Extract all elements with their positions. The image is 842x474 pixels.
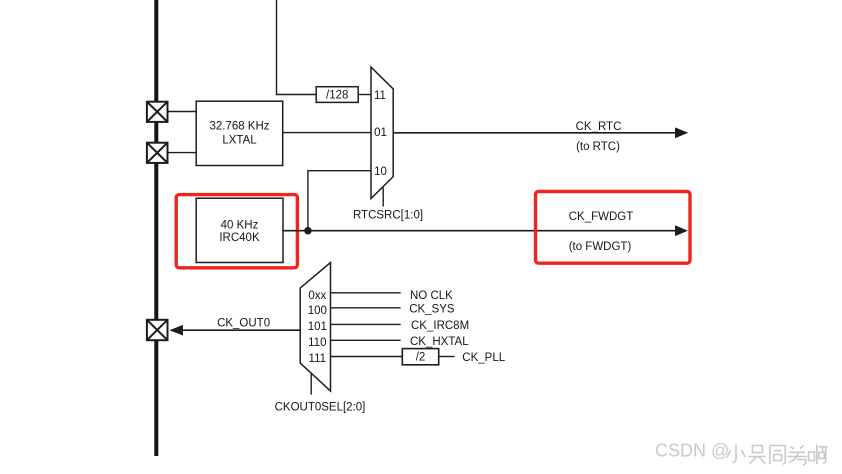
svg-text:32.768 KHz: 32.768 KHz <box>209 121 269 133</box>
wire: CK_PLL input line to /2 <box>331 356 403 358</box>
wire: OSC32OUT pad to LXTAL <box>168 152 196 154</box>
svg-text:(to RTC): (to RTC) <box>576 141 620 153</box>
wire: RTCSRC select stub <box>382 188 384 207</box>
node: IRC40K output junction dot <box>304 227 312 235</box>
svg-text:IRC40K: IRC40K <box>219 232 260 244</box>
svg-text:RTCSRC[1:0]: RTCSRC[1:0] <box>353 209 423 221</box>
divider /2 box <box>402 349 438 365</box>
svg-text:110: 110 <box>308 337 326 349</box>
pad OSC32OUT (crossed box) <box>147 143 168 163</box>
svg-text:100: 100 <box>308 305 327 317</box>
svg-text:CK_HXTAL: CK_HXTAL <box>410 336 469 348</box>
pad OSC32IN (crossed box) <box>147 102 168 122</box>
svg-text:0xx: 0xx <box>308 290 326 302</box>
wire: CKOUT0SEL select stub <box>310 373 312 394</box>
svg-text:LXTAL: LXTAL <box>222 135 257 147</box>
wire: OSC32IN pad to LXTAL <box>168 111 196 113</box>
pad CK_OUT0 (crossed box) <box>147 320 168 340</box>
red highlight box around CK_FWDGT <box>536 192 691 264</box>
svg-text:CK_SYS: CK_SYS <box>409 303 455 315</box>
svg-text:10: 10 <box>374 166 387 178</box>
wire: NO CLK input line <box>331 292 401 294</box>
mux U1 RTC clock selector (trapezoid) <box>371 67 393 199</box>
svg-text:/2: /2 <box>416 352 426 364</box>
svg-text:11: 11 <box>374 90 386 102</box>
wire: thick vertical pad rail bus <box>154 0 158 456</box>
watermark CSDN <box>655 441 828 465</box>
svg-text:/128: /128 <box>326 90 348 102</box>
svg-text:01: 01 <box>374 127 387 139</box>
wire: CK_HXTAL input line <box>331 339 401 341</box>
svg-text:CK_RTC: CK_RTC <box>576 121 622 133</box>
wire: CK_RTC line with arrow <box>393 127 688 138</box>
svg-text:NO CLK: NO CLK <box>410 290 453 302</box>
wire: /128 output to mux input 11 <box>358 94 371 96</box>
divider /128 box <box>316 87 358 103</box>
mux U2 CK_OUT0 selector (trapezoid) <box>300 263 330 392</box>
wire: from top to /128 divider input <box>277 0 317 95</box>
svg-text:CK_OUT0: CK_OUT0 <box>217 318 270 330</box>
wire: /2 to CK_PLL label <box>439 356 455 358</box>
svg-text:111: 111 <box>309 353 326 365</box>
oscillator LXTAL 32.768 KHz box <box>196 101 283 165</box>
red highlight box around IRC40K <box>176 195 297 268</box>
svg-text:(to FWDGT): (to FWDGT) <box>569 241 632 253</box>
svg-text:CK_IRC8M: CK_IRC8M <box>411 320 469 332</box>
wire: CK_FWDGT line with arrow <box>283 225 688 236</box>
wire: CK_OUT0 line with left arrow <box>169 325 300 336</box>
svg-text:CKOUT0SEL[2:0]: CKOUT0SEL[2:0] <box>275 401 366 413</box>
wire: IRC40K node up to mux input 10 <box>308 171 371 231</box>
wire: LXTAL output to mux input 01 <box>283 132 371 134</box>
svg-text:40 KHz: 40 KHz <box>221 219 259 231</box>
svg-text:101: 101 <box>308 321 327 333</box>
wire: CK_IRC8M input line <box>331 323 401 325</box>
svg-text:CSDN @: CSDN @ <box>655 441 729 461</box>
wire: CK_SYS input line <box>331 307 401 309</box>
svg-text:CK_FWDGT: CK_FWDGT <box>569 211 634 223</box>
oscillator IRC40K 40 KHz box <box>196 198 283 262</box>
svg-text:CK_PLL: CK_PLL <box>462 352 505 364</box>
